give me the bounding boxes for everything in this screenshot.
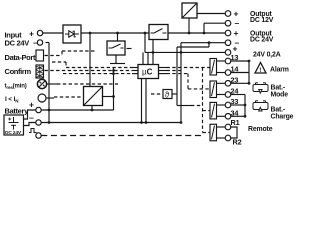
wire S2 bottom pin to uC: [152, 40, 154, 65]
wire 0V return drop x177: [176, 47, 178, 106]
svg-text:–: –: [33, 38, 38, 48]
svg-text:µC: µC: [142, 68, 153, 77]
alarm warning triangle: [255, 63, 266, 74]
dashed uC row y73.6: [63, 73, 132, 75]
svg-text:24V 0,2A: 24V 0,2A: [253, 51, 281, 58]
battery + rail y110: [41, 109, 113, 111]
I&lt;In circle: [38, 94, 46, 102]
node junction top rail x90: [89, 32, 92, 35]
output terminal -24V: [225, 40, 231, 46]
node junction x189: [188, 32, 191, 35]
diode D1 box: [63, 25, 81, 43]
wire corner to contact feed: [177, 105, 191, 107]
wire 14 to bus: [231, 72, 249, 74]
wire drop to switch S1: [117, 33, 119, 41]
terminal 13: [225, 58, 231, 64]
switch S1 box: [107, 41, 125, 55]
relay contact K3 (33-34): [210, 102, 225, 119]
svg-text:Remote: Remote: [248, 126, 273, 133]
wire corner x209: [208, 43, 210, 47]
svg-text:Confirm: Confirm: [5, 67, 32, 76]
uC bottom pins to 0V rail: [141, 79, 143, 123]
wire 34 to bus: [231, 115, 245, 117]
wire 13 to bus: [231, 60, 249, 62]
dashed mech link x202.5: [202, 68, 204, 133]
theta sensor box: [163, 90, 172, 99]
DC/DC converter U2 box: [182, 3, 197, 18]
wire vertical x181 down to 0V rail: [180, 43, 182, 123]
node junction x153 on supply line: [152, 51, 155, 54]
wire top rail S2 to +24V output: [168, 32, 225, 34]
svg-text:DC 24V: DC 24V: [5, 39, 30, 48]
uC U1 box: [138, 65, 159, 79]
battery - terminal: [36, 120, 41, 125]
dashed stub row y70.5 right: [167, 70, 182, 72]
input - terminal: [37, 40, 42, 45]
relay contact K2 (23-24): [210, 81, 225, 98]
switch S2 box: [149, 25, 168, 40]
svg-text:Battery: Battery: [5, 107, 30, 116]
svg-text:23: 23: [231, 75, 239, 84]
wire input minus bus x49: [46, 42, 50, 44]
wire uC supply line y52.8: [145, 51, 225, 53]
node junction x204: [203, 32, 206, 35]
svg-text:Mode: Mode: [271, 91, 289, 98]
dashed vertical x188: [187, 74, 189, 89]
Data-Port connector box: [36, 50, 44, 61]
wire drop x145 to uC supply line: [144, 33, 146, 52]
wire drop to DC/DC converter U3: [89, 33, 91, 87]
wire -24V terminal to 0V link: [181, 42, 225, 44]
svg-text:–: –: [235, 18, 240, 28]
t(min) wire: [47, 83, 58, 85]
switch S2 contact: [151, 29, 167, 34]
terminal 14: [225, 70, 231, 76]
svg-text:+: +: [233, 44, 238, 54]
DC/DC converter U3 diagonal: [84, 87, 103, 106]
wire U2 output to +12V terminal: [197, 13, 225, 15]
wire -12V terminal to 0V link: [204, 22, 225, 24]
remote pulse icon: [29, 129, 37, 133]
terminal R1: [225, 124, 231, 130]
wire 24 to bus: [231, 94, 245, 96]
t(min) timer icon: [37, 79, 46, 88]
output terminal -12V: [225, 20, 231, 26]
svg-text:–: –: [29, 113, 34, 123]
battery charge icon: [253, 101, 268, 111]
node junction top rail x145: [144, 32, 147, 35]
diode D1 symbol: [65, 31, 79, 37]
dashed row y73.6 right: [167, 73, 189, 75]
terminal 33: [225, 102, 231, 108]
svg-text:DC 12V: DC 12V: [250, 17, 274, 24]
remote jumper R1-R2: [231, 127, 237, 138]
battery mode icon: [253, 83, 268, 93]
wire theta to 0V drop: [172, 93, 177, 95]
wire U3 right pin to battery+ rail: [103, 96, 114, 98]
svg-text:ϑ: ϑ: [165, 90, 170, 99]
dashed t(min) row y84: [57, 83, 118, 85]
svg-text:+: +: [29, 100, 34, 110]
battery - 0V rail y122.5: [41, 122, 181, 124]
uC right pins: [159, 67, 167, 69]
battery + terminal: [36, 107, 41, 112]
wire battery - to box: [24, 123, 36, 126]
DC/DC converter U3 box: [84, 87, 103, 106]
svg-text:tres(min): tres(min): [5, 84, 27, 91]
wire battery + to box: [24, 110, 36, 119]
svg-text:+: +: [234, 28, 239, 38]
wire riser to DC/DC converter U2: [188, 18, 190, 33]
svg-text:33: 33: [231, 97, 239, 106]
wire top rail from input + to diode: [43, 32, 63, 34]
svg-text:!: !: [259, 67, 261, 74]
dashed contact3 feed: [191, 105, 203, 107]
wire dashed stub right of S1: [127, 48, 132, 50]
wire switch S1 bottom pin: [115, 55, 117, 64]
terminal 24: [225, 92, 231, 98]
dashed I&lt;In row y97: [54, 96, 84, 98]
output terminal +24V: [225, 30, 231, 36]
svg-text:Data-Port: Data-Port: [5, 53, 36, 62]
terminal 34: [225, 114, 231, 120]
svg-text:Charge: Charge: [271, 113, 294, 120]
wire U3 bottom pin: [91, 106, 93, 111]
DC/DC converter U2 diagonal: [182, 3, 197, 18]
wire 23 to bus: [231, 82, 249, 84]
svg-text:+: +: [234, 9, 239, 19]
dashed contact4 feed: [203, 132, 211, 134]
I&lt;In wire: [46, 97, 54, 99]
switch S1 contact: [109, 44, 124, 48]
svg-text:R1: R1: [231, 118, 240, 127]
battery box: [4, 115, 24, 135]
svg-text:DC 24V: DC 24V: [5, 130, 22, 136]
battery cells symbol: [8, 117, 18, 130]
svg-text:Alarm: Alarm: [270, 67, 289, 74]
output terminal +12V: [225, 11, 231, 17]
dashed uC row y67.5: [66, 67, 132, 69]
svg-text:R2: R2: [233, 138, 242, 147]
node junction x181 on supply line: [180, 51, 183, 54]
dashed control row y62: [52, 61, 66, 63]
dashed contact2 feed: [188, 88, 210, 90]
dashed confirm row y70.5: [45, 70, 133, 72]
dashed theta sensor stub: [151, 93, 163, 95]
dashed relay control feed row y67: [167, 67, 211, 69]
relay contact K1 (13-14): [210, 59, 225, 76]
dashed data-port line: [45, 51, 96, 56]
svg-text:Bat.-: Bat.-: [271, 84, 286, 91]
bus vertical 24-34: [244, 95, 246, 117]
wire top rail diode to switch S2: [81, 32, 149, 34]
terminal R2: [225, 135, 231, 141]
relay contact K4 (R1-R2): [210, 124, 225, 141]
uC top pins: [142, 52, 144, 64]
output terminal 0.2A: [225, 50, 231, 56]
remote trigger terminal: [36, 133, 41, 138]
terminal 23: [225, 81, 231, 87]
input + terminal: [37, 30, 42, 35]
svg-text:34: 34: [231, 108, 240, 117]
svg-text:14: 14: [231, 65, 240, 74]
svg-text:24: 24: [231, 87, 240, 96]
bus vertical 13-23: [248, 61, 250, 83]
svg-text:DC 24V: DC 24V: [250, 37, 274, 44]
node junction top rail x117.5: [116, 32, 119, 35]
svg-text:Bat.-: Bat.-: [271, 106, 286, 113]
wire 0V return y47: [177, 46, 209, 48]
svg-text:13: 13: [231, 53, 239, 62]
Confirm key box: [36, 65, 44, 78]
wire 0V vertical link x204: [203, 23, 205, 33]
wire 33 to bus: [231, 104, 245, 106]
dashed remote rail y135.5: [41, 135, 202, 137]
